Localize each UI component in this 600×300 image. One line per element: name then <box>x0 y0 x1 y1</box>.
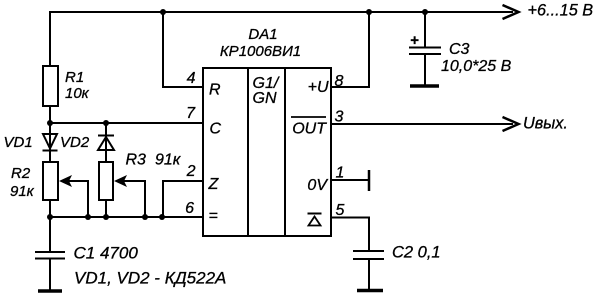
svg-text:+: + <box>410 32 419 49</box>
svg-text:GN: GN <box>253 90 277 107</box>
svg-text:4: 4 <box>187 70 196 87</box>
svg-text:C3: C3 <box>449 41 470 58</box>
svg-text:91к: 91к <box>155 152 182 169</box>
svg-text:Uвых.: Uвых. <box>523 115 568 133</box>
svg-text:8: 8 <box>335 73 344 90</box>
svg-text:5: 5 <box>336 202 345 219</box>
svg-text:C2 0,1: C2 0,1 <box>392 244 441 262</box>
svg-text:R3: R3 <box>126 152 147 169</box>
svg-text:VD1, VD2 - КД522А: VD1, VD2 - КД522А <box>74 269 226 288</box>
svg-text:2: 2 <box>186 163 196 180</box>
svg-text:C1 4700: C1 4700 <box>74 244 139 263</box>
svg-text:6: 6 <box>185 200 194 217</box>
svg-text:VD2: VD2 <box>60 134 90 151</box>
svg-text:+U: +U <box>308 79 329 96</box>
svg-text:+6...15 В: +6...15 В <box>528 2 594 20</box>
svg-text:VD1: VD1 <box>4 134 33 151</box>
svg-text:0V: 0V <box>307 177 328 194</box>
svg-text:Z: Z <box>208 176 220 193</box>
svg-text:R1: R1 <box>65 69 84 86</box>
svg-text:DA1: DA1 <box>248 26 277 43</box>
svg-text:10к: 10к <box>65 85 90 102</box>
svg-text:=: = <box>209 208 218 225</box>
svg-text:1: 1 <box>336 165 345 182</box>
svg-text:R2: R2 <box>11 165 31 182</box>
svg-text:7: 7 <box>186 105 196 122</box>
svg-text:C: C <box>210 121 222 138</box>
svg-text:3: 3 <box>335 109 344 126</box>
svg-text:КР1006ВИ1: КР1006ВИ1 <box>220 43 301 60</box>
svg-text:91к: 91к <box>10 183 35 200</box>
svg-text:10,0*25 В: 10,0*25 В <box>441 58 512 75</box>
svg-text:R: R <box>209 82 221 99</box>
svg-text:OUT: OUT <box>292 121 327 138</box>
